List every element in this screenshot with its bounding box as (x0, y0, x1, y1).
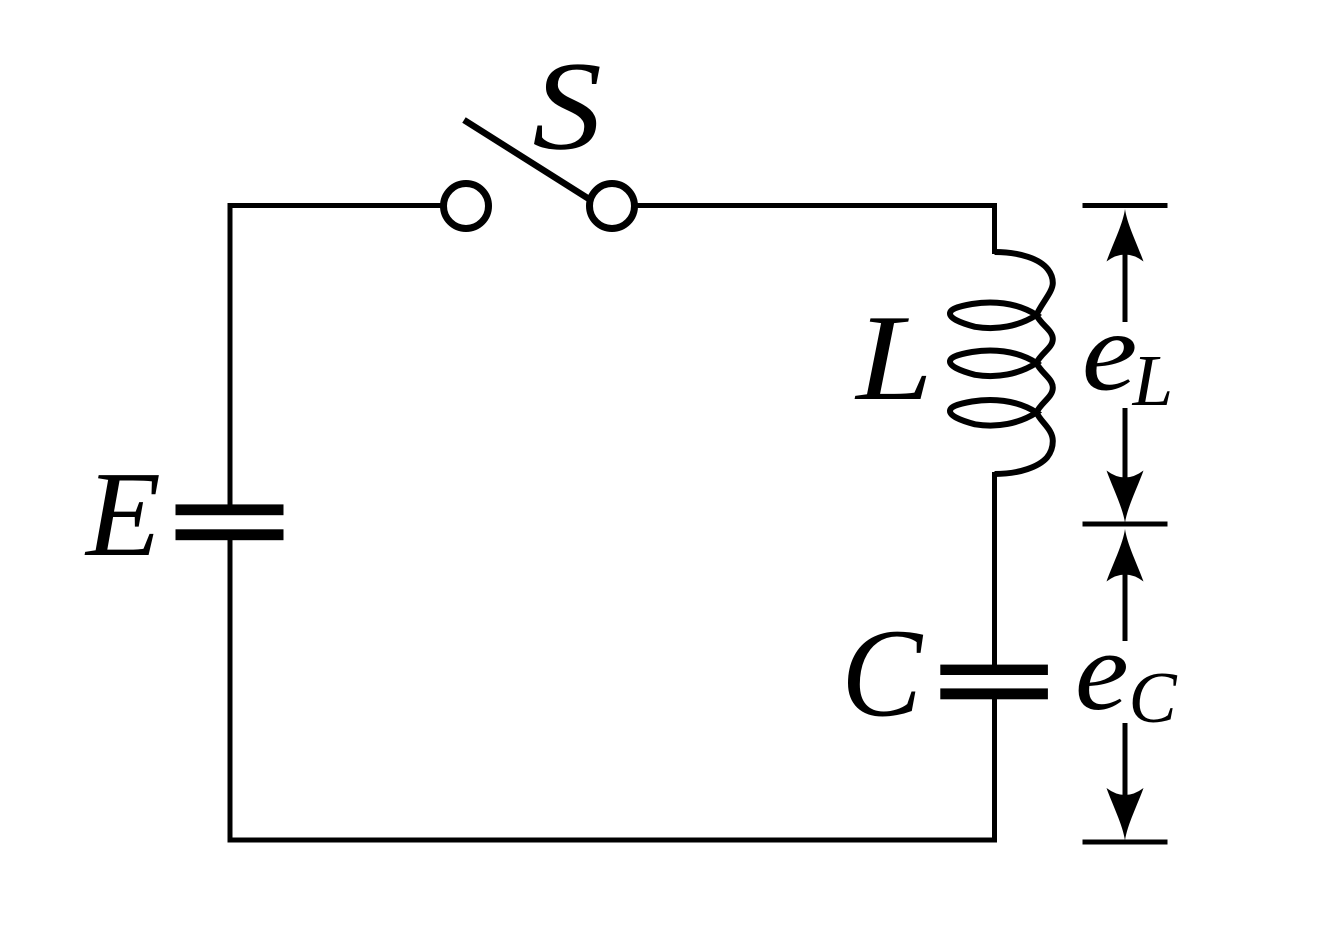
wire top-left segment (230, 203, 443, 208)
wire right vertical middle (992, 472, 997, 665)
dimension arrowhead down (eC bottom) (1107, 788, 1144, 841)
dimension arrowhead up (eC top) (1107, 529, 1144, 582)
wire top-right segment (637, 203, 997, 208)
svg-text:L: L (854, 291, 933, 427)
inductor L coil loop 3 (950, 400, 1037, 426)
dimension shaft eL lower (1123, 408, 1128, 505)
label L (854, 291, 933, 427)
wire left vertical lower (228, 540, 233, 843)
switch S blade (464, 120, 589, 199)
label e_L (1082, 288, 1138, 414)
battery E plate bottom (176, 529, 284, 540)
inductor L coil loop 2 (950, 350, 1037, 376)
battery E plate top (176, 504, 284, 515)
svg-text:S: S (532, 35, 601, 176)
dimension shaft eL upper (1123, 240, 1128, 322)
wire right vertical top (992, 203, 997, 254)
inductor L coil loop 1 (950, 302, 1037, 328)
wire left vertical upper (228, 203, 233, 505)
inductor L coil right snake strand (995, 252, 1053, 474)
svg-text:C: C (1129, 656, 1179, 738)
svg-text:e: e (1082, 288, 1138, 414)
svg-text:L: L (1132, 340, 1173, 421)
svg-text:e: e (1075, 608, 1129, 734)
switch S contact circle left (444, 184, 489, 229)
dimension tick top (1083, 203, 1168, 208)
label C (841, 604, 923, 744)
wire bottom (228, 838, 998, 843)
wire right vertical bottom (992, 699, 997, 843)
label E (84, 447, 161, 582)
dimension shaft eC lower (1123, 723, 1128, 820)
dimension tick bottom (1083, 840, 1168, 845)
dimension tick middle (1083, 522, 1168, 527)
switch S contact circle right (590, 184, 635, 229)
svg-text:C: C (841, 604, 923, 744)
dimension arrowhead down (eL bottom) (1107, 471, 1144, 524)
label S (532, 35, 601, 176)
svg-text:E: E (84, 447, 161, 582)
dimension arrowhead up (eL top) (1107, 209, 1144, 262)
capacitor C plate top (940, 665, 1048, 675)
capacitor C plate bottom (940, 688, 1048, 699)
label e_C (1075, 608, 1129, 734)
dimension shaft eC upper (1123, 547, 1128, 641)
